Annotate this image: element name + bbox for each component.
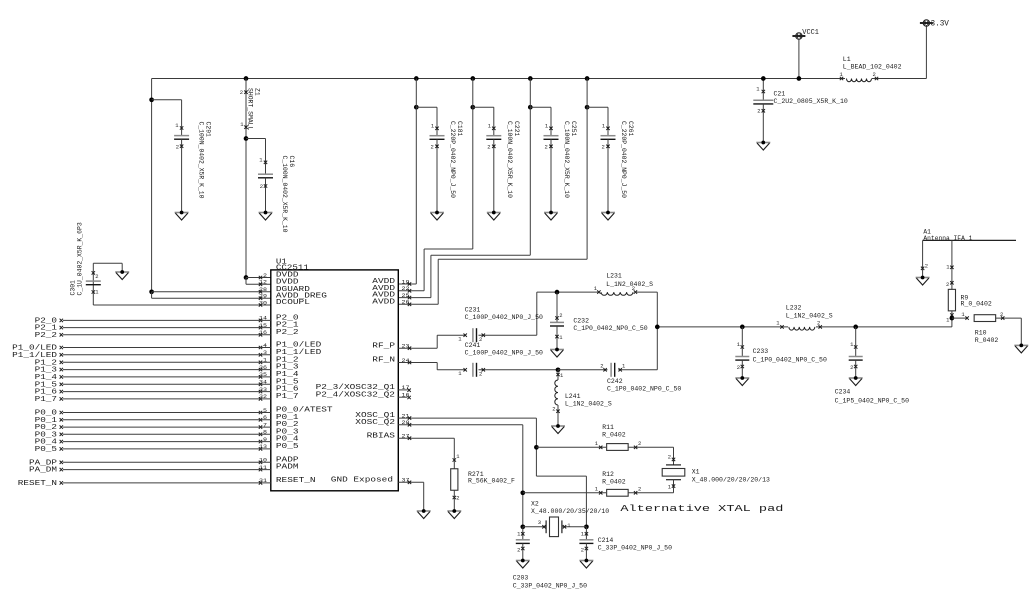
svg-text:C301: C301 bbox=[70, 280, 77, 295]
svg-text:RF_P: RF_P bbox=[372, 342, 395, 350]
svg-text:C_100N_0402_X5R_K_10: C_100N_0402_X5R_K_10 bbox=[506, 121, 513, 198]
svg-text:P2_2: P2_2 bbox=[276, 329, 299, 337]
svg-text:2: 2 bbox=[487, 144, 490, 151]
svg-text:2: 2 bbox=[176, 144, 179, 151]
svg-text:RF_N: RF_N bbox=[372, 357, 395, 365]
svg-text:C234: C234 bbox=[835, 388, 851, 395]
svg-text:C221: C221 bbox=[513, 121, 520, 136]
svg-text:C_1P0_0402_NP0_C_50: C_1P0_0402_NP0_C_50 bbox=[753, 357, 827, 364]
svg-text:2: 2 bbox=[559, 312, 562, 319]
svg-text:2: 2 bbox=[638, 440, 641, 447]
svg-text:Alternative XTAL pad: Alternative XTAL pad bbox=[620, 503, 783, 514]
svg-text:C181: C181 bbox=[456, 121, 463, 136]
svg-text:C_2U2_0805_X5R_K_10: C_2U2_0805_X5R_K_10 bbox=[774, 98, 848, 105]
svg-text:RESET_N: RESET_N bbox=[18, 480, 57, 488]
svg-text:2: 2 bbox=[517, 547, 520, 554]
svg-text:2: 2 bbox=[552, 406, 555, 413]
svg-text:L241: L241 bbox=[565, 393, 581, 400]
svg-text:C241: C241 bbox=[465, 342, 481, 349]
svg-text:2: 2 bbox=[1000, 311, 1003, 318]
svg-text:DCOUPL: DCOUPL bbox=[276, 299, 311, 307]
svg-text:C_1P0_0402_NP0_C_50: C_1P0_0402_NP0_C_50 bbox=[607, 386, 681, 393]
svg-text:26: 26 bbox=[402, 299, 411, 306]
svg-text:R12: R12 bbox=[602, 471, 614, 478]
svg-text:C291: C291 bbox=[205, 122, 212, 137]
svg-text:2: 2 bbox=[757, 108, 760, 115]
svg-text:C214: C214 bbox=[598, 537, 614, 544]
svg-text:R_0402: R_0402 bbox=[602, 432, 626, 439]
svg-text:2: 2 bbox=[240, 89, 243, 96]
svg-text:2: 2 bbox=[430, 144, 433, 151]
svg-text:C_1U_0402_X5R_K_6P3: C_1U_0402_X5R_K_6P3 bbox=[77, 222, 84, 295]
svg-text:RBIAS: RBIAS bbox=[367, 432, 396, 440]
svg-text:L_1N2_0402_S: L_1N2_0402_S bbox=[786, 313, 833, 320]
svg-text:Antenna_IFA_1: Antenna_IFA_1 bbox=[923, 235, 972, 242]
svg-text:C231: C231 bbox=[465, 307, 481, 314]
svg-text:L231: L231 bbox=[606, 273, 622, 280]
svg-text:L1: L1 bbox=[843, 56, 851, 63]
svg-text:C_100P_0402_NP0_J_50: C_100P_0402_NP0_J_50 bbox=[465, 350, 543, 357]
svg-text:C233: C233 bbox=[753, 348, 769, 355]
svg-text:X1: X1 bbox=[692, 469, 700, 476]
svg-text:GND Exposed: GND Exposed bbox=[331, 476, 393, 484]
svg-text:2: 2 bbox=[668, 454, 671, 461]
svg-text:R_0_0402: R_0_0402 bbox=[961, 301, 992, 308]
svg-text:L232: L232 bbox=[786, 305, 802, 312]
svg-text:C_33P_0402_NP0_J_50: C_33P_0402_NP0_J_50 bbox=[513, 583, 587, 590]
svg-text:P0_5: P0_5 bbox=[276, 443, 299, 451]
svg-text:3: 3 bbox=[538, 519, 541, 526]
svg-text:2: 2 bbox=[479, 370, 482, 377]
svg-text:X2: X2 bbox=[531, 501, 539, 508]
svg-text:2: 2 bbox=[600, 362, 603, 369]
svg-text:C16: C16 bbox=[288, 156, 295, 168]
svg-text:L_BEAD_102_0402: L_BEAD_102_0402 bbox=[843, 64, 902, 71]
svg-text:C_1P0_0402_NP0_C_50: C_1P0_0402_NP0_C_50 bbox=[573, 325, 647, 332]
svg-text:L_1N2_0402_S: L_1N2_0402_S bbox=[565, 400, 612, 407]
svg-text:2: 2 bbox=[850, 364, 853, 371]
svg-text:2: 2 bbox=[873, 71, 876, 78]
svg-text:VCC1: VCC1 bbox=[802, 29, 819, 37]
svg-text:X_48.000/20/20/20/13: X_48.000/20/20/20/13 bbox=[692, 477, 770, 484]
svg-text:XOSC_Q2: XOSC_Q2 bbox=[355, 419, 395, 427]
svg-text:C232: C232 bbox=[573, 317, 589, 324]
svg-text:2: 2 bbox=[946, 281, 949, 288]
svg-text:2: 2 bbox=[260, 183, 263, 190]
svg-text:R_56K_0402_F: R_56K_0402_F bbox=[468, 478, 515, 485]
svg-text:P2_2: P2_2 bbox=[35, 332, 57, 340]
svg-text:2: 2 bbox=[925, 263, 928, 270]
svg-text:AVDD: AVDD bbox=[372, 298, 395, 306]
svg-text:X_48.000/20/35/20/10: X_48.000/20/35/20/10 bbox=[531, 508, 609, 515]
svg-text:PA_DM: PA_DM bbox=[29, 467, 57, 475]
svg-text:R_0402: R_0402 bbox=[975, 337, 999, 344]
svg-text:P0_5: P0_5 bbox=[35, 446, 57, 454]
svg-text:2: 2 bbox=[456, 495, 459, 502]
svg-text:R10: R10 bbox=[975, 330, 987, 337]
svg-text:C261: C261 bbox=[627, 121, 634, 136]
svg-text:P1_7: P1_7 bbox=[276, 393, 299, 401]
svg-text:C203: C203 bbox=[513, 575, 529, 582]
svg-text:C_100P_0402_NP0_J_50: C_100P_0402_NP0_J_50 bbox=[465, 314, 543, 321]
svg-text:3.3V: 3.3V bbox=[931, 20, 950, 28]
svg-text:C_1P5_0402_NP0_C_50: C_1P5_0402_NP0_C_50 bbox=[835, 398, 909, 405]
svg-text:2: 2 bbox=[601, 144, 604, 151]
svg-text:2: 2 bbox=[638, 485, 641, 492]
svg-text:2: 2 bbox=[544, 144, 547, 151]
svg-text:L_1N2_0402_S: L_1N2_0402_S bbox=[606, 281, 653, 288]
svg-text:P2_4/XOSC32_Q2: P2_4/XOSC32_Q2 bbox=[316, 391, 396, 399]
svg-text:R_0402: R_0402 bbox=[602, 478, 626, 485]
svg-text:Z1: Z1 bbox=[254, 88, 261, 96]
svg-text:C_100N_0402_X5R_K_10: C_100N_0402_X5R_K_10 bbox=[198, 122, 205, 199]
svg-text:PADM: PADM bbox=[276, 464, 299, 472]
svg-text:R11: R11 bbox=[602, 424, 614, 431]
svg-text:RESET_N: RESET_N bbox=[276, 477, 316, 485]
svg-text:C21: C21 bbox=[774, 91, 786, 98]
svg-text:C_100N_0402_X5R_K_10: C_100N_0402_X5R_K_10 bbox=[563, 121, 570, 198]
svg-text:P1_7: P1_7 bbox=[35, 396, 57, 404]
svg-text:SHORT_SMALL: SHORT_SMALL bbox=[247, 88, 254, 130]
svg-text:C_220P_0402_NP0_J_50: C_220P_0402_NP0_J_50 bbox=[620, 121, 627, 198]
svg-text:C242: C242 bbox=[607, 378, 623, 385]
svg-text:C251: C251 bbox=[570, 121, 577, 136]
svg-text:C_220P_0402_NP0_J_50: C_220P_0402_NP0_J_50 bbox=[449, 121, 456, 198]
svg-text:2: 2 bbox=[95, 273, 98, 280]
svg-text:2: 2 bbox=[817, 320, 820, 327]
svg-text:C_33P_0402_NP0_J_50: C_33P_0402_NP0_J_50 bbox=[598, 544, 672, 551]
svg-text:2: 2 bbox=[737, 364, 740, 371]
svg-text:2: 2 bbox=[581, 547, 584, 554]
svg-text:C_100N_0402_X5R_K_10: C_100N_0402_X5R_K_10 bbox=[281, 156, 288, 233]
